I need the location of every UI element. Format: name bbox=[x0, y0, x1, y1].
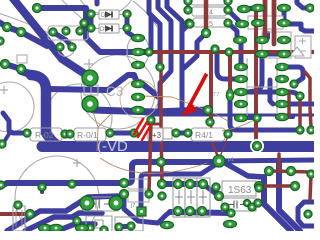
node: oval pad (258,23) bbox=[252, 19, 265, 26]
node: pad (258,203) bbox=[254, 199, 262, 207]
thin inner circle (tan) near C3 bbox=[120, 80, 158, 118]
node: pad (190,184) bbox=[186, 180, 195, 189]
node: pad (190,24) bbox=[186, 20, 194, 28]
node: pad (229,52) bbox=[225, 48, 233, 56]
node: oval pad (282,104) bbox=[276, 100, 289, 107]
svg-text:j7: j7 bbox=[130, 203, 135, 209]
node: oval pad (138,97) bbox=[132, 93, 145, 100]
capacitor outline arc top of chevrons bbox=[133, 1, 157, 27]
node: oval pad (258,8) bbox=[252, 4, 265, 11]
wire: red thin pad(228,134) to pad(219,161) bbox=[219, 136, 228, 159]
capacitor C7 bottom-left bbox=[82, 197, 120, 211]
svg-text:R4/1: R4/1 bbox=[195, 130, 213, 140]
node: oval pad (282,92) bbox=[276, 88, 289, 95]
node: pad (203,184) bbox=[199, 180, 208, 189]
transistor outline bottom center bbox=[86, 216, 143, 231]
node: pad (208,110) bbox=[204, 106, 213, 115]
node: oval pad (282,67) bbox=[276, 63, 289, 70]
wire: red horizontal y124 bbox=[148, 123, 161, 126]
svg-text:R-02: R-02 bbox=[35, 130, 54, 140]
wire: IC U1 oval(282,104) to right edge bbox=[286, 102, 314, 107]
node: pad (21,32) bbox=[17, 28, 26, 37]
diodes D5 D6 top-center bbox=[95, 10, 123, 33]
wire: film caps bottom bus y212 bbox=[170, 212, 231, 213]
resistor Rb body bbox=[192, 7, 226, 16]
wire: pad C diagonal stub bbox=[21, 32, 47, 46]
node: pad (70,134) bbox=[66, 130, 74, 138]
node: pad (178,211) bbox=[174, 207, 183, 216]
wire: chevron2 bbox=[158, 0, 171, 111]
node: pad (228,23) bbox=[224, 19, 232, 27]
resistor R1 body bbox=[30, 128, 62, 141]
electrolytic cap bottom-left corner bbox=[13, 206, 25, 231]
IC U1 body silk bbox=[247, 16, 311, 116]
wire: IC U1 oval(282,67) to pad(295,80) bbox=[286, 67, 303, 82]
wire: oval row1 link bbox=[244, 8, 256, 9]
node: pad (0,41) bbox=[0, 37, 4, 45]
node: oval pad (138,52) bbox=[132, 48, 145, 55]
node: pad (247,203) bbox=[244, 200, 251, 207]
node: large pad (219,161) bbox=[213, 155, 225, 167]
film capacitors C9 C10 C11 bbox=[173, 178, 210, 217]
node: large pad (90,104) bbox=[82, 96, 98, 112]
node: pad (5,64) bbox=[1, 60, 10, 69]
wire: red vertical x310 to pad(311,130) bbox=[310, 108, 311, 127]
node: pad (77,221) bbox=[73, 217, 81, 225]
node: oval pad (45,228) bbox=[39, 224, 52, 231]
capacitor outline circle mid-left bbox=[46, 84, 112, 150]
wire: chevron3 bbox=[167, 0, 182, 110]
wire: diode pads join left bbox=[89, 14, 94, 28]
resistor stack top-center bbox=[191, 0, 227, 27]
wire: red horizontal y186 bbox=[261, 184, 293, 188]
diode D3 bottom right with label bbox=[222, 181, 256, 196]
airwire horizontal mid bbox=[141, 96, 228, 121]
wire: staircase S2 bottom-left bbox=[25, 213, 102, 231]
node: pad (202,211) bbox=[198, 207, 207, 216]
wire: diode left bus: pad(87,25) down diag to H y52 bbox=[86, 24, 151, 52]
node: oval pad (138,38) bbox=[132, 34, 145, 41]
node: pad (189,23) bbox=[185, 19, 193, 27]
wire: red verticals top right pair b bbox=[272, 0, 277, 44]
wire: C7 right pad short bbox=[116, 203, 120, 206]
node: oval pad (244,9) bbox=[238, 5, 251, 12]
wire: top-left diagonal to big cap pad bbox=[11, 0, 88, 76]
wire: red vertical x211 H52 to pad(210,122) bbox=[209, 52, 213, 120]
capacitor C3 outline circle center bbox=[81, 55, 155, 129]
node: oval pad (284,23) bbox=[278, 19, 291, 26]
node: pad (27,133) bbox=[23, 129, 31, 137]
node: pad (2,144) bbox=[0, 140, 6, 148]
node: pad (188,10) bbox=[184, 6, 192, 14]
lead lines resistor row bbox=[27, 133, 228, 134]
resistor Ra body bbox=[191, 0, 225, 5]
connector ellipse around oval pads bbox=[127, 35, 149, 67]
node: pad (90,228) bbox=[86, 224, 94, 232]
node: pad (21,69) bbox=[17, 65, 26, 74]
svg-text:4: 4 bbox=[209, 10, 213, 17]
wire: R1-R2 shared pads bbox=[65, 132, 70, 136]
wire: red vertical x161 from y52 to pad(162,184) bbox=[161, 52, 162, 184]
node: pad (119,227) bbox=[115, 223, 123, 231]
resistor stack labels bbox=[209, 10, 213, 29]
wire: stub pad(110,133) to pad(134,133) bbox=[112, 131, 132, 136]
wire: pad(21,69) into corner bbox=[21, 71, 33, 75]
wire: route pad(222,97) down corner to H y130 bbox=[230, 98, 297, 130]
node: pad (228,134) bbox=[224, 130, 232, 138]
wire: oval(282,117) stub bbox=[286, 115, 293, 119]
node: pad (104,230) bbox=[100, 226, 108, 234]
wire: main thick band y146 bbox=[42, 141, 314, 152]
wire: left edge entry to resistor R1 bbox=[3, 113, 26, 133]
wire: pad pair left edge y64-69 bbox=[5, 64, 21, 69]
node: pad (178,184) bbox=[174, 180, 183, 189]
annotation: red arrow bbox=[181, 73, 208, 117]
node: pad (257,118) bbox=[253, 114, 261, 122]
resistor R3 body bbox=[148, 128, 163, 141]
wire: stub to pad(2,144) bbox=[4, 134, 9, 142]
node: pad (176,133) bbox=[172, 129, 180, 137]
wire: resistor stack right pad diag to H y24 bbox=[228, 10, 242, 24]
wire: IC mid vertical x262 bbox=[248, 56, 262, 92]
node: oval pad (138,84) bbox=[132, 80, 145, 87]
node: pad (311,174) bbox=[307, 170, 315, 178]
wire: IC U1 vertical x270 bbox=[270, 80, 273, 104]
node: large pad (116,203) bbox=[109, 196, 123, 210]
wire: feeder pad(189,23) to chevron3 bbox=[183, 24, 189, 30]
wire: red vertical x265 over silk box bbox=[263, 0, 268, 38]
node: pad (311,130) bbox=[307, 126, 315, 134]
svg-text:C3: C3 bbox=[106, 84, 123, 99]
airwire right mid bbox=[222, 118, 258, 131]
wire: bottom edge bits near transistor bbox=[119, 226, 131, 227]
node: pad (259,186) bbox=[255, 182, 264, 191]
svg-text:T7: T7 bbox=[213, 92, 219, 98]
node: pad (188,133) bbox=[184, 129, 192, 137]
node: pad (66,31) bbox=[62, 27, 70, 35]
node: oval pad (262,54) bbox=[256, 50, 269, 57]
silk box top-right area bbox=[248, 16, 283, 29]
node: pad (65,134) bbox=[61, 130, 69, 138]
wire: red horizontal y171 bbox=[271, 171, 311, 172]
node: pad (18,205) bbox=[14, 201, 22, 209]
node: oval pad (241,67) bbox=[235, 63, 248, 70]
node: large pad (90,78) bbox=[82, 70, 98, 86]
node: oval pad (262,40) bbox=[256, 36, 269, 43]
node: pad (269,171) bbox=[265, 167, 274, 176]
node: pad (72,47) bbox=[68, 43, 76, 51]
node: pad (127,28) bbox=[123, 24, 131, 32]
wire: red vertical x274 over silk box bbox=[272, 0, 277, 44]
wire: top bus diag to pad(219,196) bbox=[203, 184, 219, 196]
node: oval pad (56,228) bbox=[50, 224, 63, 231]
wire: oval(241,118) to pad(257,118) bbox=[245, 116, 254, 120]
node: pad (210,122) bbox=[206, 118, 214, 126]
node: pad (300,96) bbox=[296, 92, 304, 100]
node: pad (7,27) bbox=[3, 23, 12, 32]
node: pad (124,183) bbox=[120, 179, 129, 188]
node: pad (160,67) bbox=[156, 63, 164, 71]
capacitor outline big circle top-left bbox=[0, 13, 62, 40]
wire: red verticals top right pair a bbox=[263, 0, 268, 38]
component boxes right of C7 bbox=[128, 179, 149, 202]
node: large pad (87,203) bbox=[80, 196, 94, 210]
node: pad (131,226) bbox=[127, 222, 135, 230]
svg-text:D5: D5 bbox=[100, 27, 108, 33]
node: pad (190,211) bbox=[186, 207, 195, 216]
node: pad (216,187) bbox=[212, 183, 220, 191]
square pad bottom center bbox=[137, 207, 146, 216]
node: pad (134,133) bbox=[130, 129, 138, 137]
diode D5 body bbox=[95, 24, 123, 33]
small pad box right of R3 bbox=[163, 128, 172, 139]
node: oval pad (167,225) bbox=[161, 221, 174, 228]
svg-text:R-0/1: R-0/1 bbox=[77, 130, 98, 140]
resistor Rc body bbox=[193, 18, 227, 27]
node: pad (225,207) bbox=[221, 203, 229, 211]
wire: red right edge diagonal into vertical x310 bbox=[305, 72, 310, 101]
plus mark left circle bbox=[0, 86, 8, 94]
capacitor outline circle top-center bbox=[76, 0, 136, 14]
wire: big cap lower pad into bus bbox=[90, 104, 97, 110]
node: pad (42,187) bbox=[38, 183, 46, 191]
node: pad (151,120) bbox=[147, 116, 155, 124]
node: pad (37,8) bbox=[33, 4, 42, 13]
wire: silk-box oval down to IC pin bbox=[239, 43, 244, 64]
wire: relay internal trace bbox=[53, 32, 71, 46]
node: pad (127,14) bbox=[123, 10, 131, 18]
wire: right top horizontal y24 bbox=[242, 22, 301, 27]
node: pad (162,184) bbox=[158, 180, 167, 189]
node: oval pad (282,117) bbox=[276, 113, 289, 120]
capacitor C12 bottom right bbox=[222, 198, 256, 211]
svg-text:(-VD: (-VD bbox=[97, 138, 128, 155]
tall component right edge bbox=[295, 36, 311, 58]
airwire curve below band bbox=[100, 158, 207, 173]
node: pad (84,23) bbox=[80, 19, 88, 27]
wire: right top corner curve bbox=[297, 0, 314, 8]
node: pad (215,49) bbox=[211, 45, 219, 53]
node: oval pad (241,104) bbox=[235, 100, 248, 107]
node: pad (91,14) bbox=[87, 10, 95, 18]
wire: thin band right from pad(219,161) bbox=[219, 161, 264, 177]
node: pad (149,52) bbox=[145, 48, 153, 56]
wire: red vertical x300 pads 96-130 bbox=[298, 100, 302, 127]
node: pad (188,1) bbox=[184, 0, 192, 5]
wire: ovals row4 link bbox=[262, 52, 284, 57]
wire: bottom-right vertical V2 bbox=[279, 162, 300, 231]
wire: right edge jog y24-31 bbox=[301, 24, 314, 31]
small silk rect top left bbox=[17, 55, 27, 63]
node: pad (1,185) bbox=[0, 181, 5, 189]
node: pad (294,84) bbox=[290, 80, 298, 88]
plus mark big cap top bbox=[84, 59, 94, 69]
wire: chevron1 branch down bbox=[149, 16, 154, 49]
resistor R4 body bbox=[191, 128, 225, 141]
node: oval pad (240,40) bbox=[234, 36, 247, 43]
node: oval pad (138,65) bbox=[132, 61, 145, 68]
wire: bottom-right vertical V1 bbox=[264, 177, 291, 231]
triangle silk top right bbox=[290, 47, 304, 56]
node: pad (80,31) bbox=[76, 27, 84, 35]
wire: oval(282,8) down to H y24 bbox=[282, 10, 287, 21]
node: pad (53,32) bbox=[49, 28, 57, 36]
wire: chevron1 from top + branch to H y52 bbox=[149, 0, 160, 67]
wire: red vertical x256 over silk box bbox=[254, 9, 258, 50]
wire: red horizontal y52 bbox=[152, 50, 314, 54]
wire: IC U1 s-route left bbox=[217, 52, 237, 79]
svg-text:1S63: 1S63 bbox=[228, 185, 252, 196]
node: pad (110,133) bbox=[106, 129, 114, 137]
wire: red vertical x230 pad to voval bbox=[228, 54, 232, 90]
plus mark bottom-left circle bbox=[73, 159, 81, 167]
wire: staircase S1 bottom-left bbox=[7, 196, 120, 231]
relay/component outline top-left bbox=[48, 26, 88, 40]
node: oval pad (284,54) bbox=[278, 50, 291, 57]
capacitor outline circle left-middle bbox=[0, 82, 34, 132]
wire: feeder pad(206,33) to chevron3 bbox=[184, 34, 205, 68]
wire: red vertical x150 pad(151,119) to pad(149,194) bbox=[149, 121, 151, 192]
node: pad (206,33) bbox=[202, 29, 211, 38]
wire: second trace: left horizontal y183 diag to y162, to thin band right bbox=[0, 162, 216, 189]
resistor row center: bodies bbox=[27, 128, 228, 141]
node: pad (60,47) bbox=[56, 43, 64, 51]
node: pad (91,28) bbox=[87, 24, 95, 32]
node: oval pad (241,92) bbox=[235, 88, 248, 95]
wire: thin trace A diag and horizontal y160 to right edge bbox=[141, 160, 314, 209]
node: oval pad (242,24) bbox=[236, 20, 249, 27]
wire: red stub x279 band to H y171 bbox=[277, 154, 281, 169]
svg-text:D6: D6 bbox=[101, 13, 109, 19]
wire: staircase S3 bottom-left bbox=[57, 224, 95, 231]
wire: top horizontal y8 + vertical x86 down to diode bus bbox=[37, 8, 86, 25]
wire: bottom left pad stub bbox=[40, 187, 44, 192]
polarity box on big cap bbox=[84, 85, 98, 95]
node: oval pad (82,228) bbox=[76, 224, 89, 231]
wire: left edge diagonal to pad B bbox=[0, 21, 21, 32]
node: pad (308,214) bbox=[304, 210, 312, 218]
wire: film caps top bus y184 bbox=[166, 181, 203, 187]
wire: oval(262,40) vertical link bbox=[266, 33, 270, 38]
node: pad (228,1) bbox=[224, 0, 232, 5]
wire: IC U1 row y92 to pad(299,96) bbox=[246, 92, 299, 96]
node: vertical oval pad (230,95) bbox=[226, 89, 233, 101]
wire: corner and main vertical into band bbox=[31, 75, 58, 146]
node: oval pad (230,224) bbox=[224, 220, 237, 227]
wire: red vertical x311 y174-199 bbox=[310, 176, 311, 199]
transistor circle outline bbox=[58, 40, 75, 57]
node: pad (310,8) bbox=[306, 4, 314, 12]
node: pad (295,186) bbox=[291, 182, 300, 191]
node: oval pad (284,40) bbox=[278, 36, 291, 43]
wire: diode pads join right bbox=[125, 14, 130, 28]
svg-text:5: 5 bbox=[209, 21, 213, 28]
node: oval pad (138,110) bbox=[132, 106, 145, 113]
wire: pad(124,194) down diag to bottom run bbox=[124, 194, 158, 223]
node: pad (149,194) bbox=[145, 190, 153, 198]
node: pad (219,196) bbox=[215, 192, 224, 201]
diode D6 body bbox=[95, 10, 123, 19]
resistor row labels bbox=[35, 130, 213, 140]
wire: diode right pad to top oval bbox=[127, 28, 133, 36]
airwire junction near R2 bbox=[91, 106, 111, 151]
node: pad (124,194) bbox=[120, 190, 129, 199]
node: oval pad (241,118) bbox=[235, 114, 248, 121]
wire: bottom bus y111 to pad (208,110) bbox=[93, 110, 206, 112]
wire: red bottom-left horizontal y214 bbox=[0, 212, 28, 216]
wire: top edge stub x97 bbox=[95, 0, 100, 4]
capacitor outline circle bottom-left bbox=[15, 156, 99, 240]
node: pad (300,130) bbox=[296, 126, 304, 134]
wire: diag to film caps bottom bus bbox=[158, 212, 170, 223]
wire: branch horizontal y89 through cap then diag up to oval column bbox=[47, 75, 136, 90]
svg-text:+3: +3 bbox=[152, 131, 162, 140]
node: oval pad (282,79) bbox=[276, 75, 289, 82]
node: oval pad (241,79) bbox=[235, 75, 248, 82]
wire: pad(228,23) diag down bbox=[228, 23, 237, 36]
node: oval pad (284,8) bbox=[278, 4, 291, 11]
node: clearance around band pad bbox=[250, 139, 264, 153]
annotation: DRC hatch marks bbox=[134, 119, 151, 140]
node: pad (228,10) bbox=[224, 6, 232, 14]
wire: thin line y115 bbox=[152, 114, 314, 117]
node: pad (161,162) bbox=[157, 158, 166, 167]
node: pad (231,213) bbox=[227, 209, 235, 217]
wire: red thin pad(210,122) to pad(219,161) bbox=[211, 124, 219, 159]
wire: feeder oval(138,84) diag to chevron2 bbox=[140, 82, 160, 98]
node: pad (259,188) bbox=[255, 184, 263, 192]
node: pad (30,214) bbox=[26, 210, 35, 219]
wire: red vertical x289 bbox=[287, 91, 291, 117]
wire: red vertical x256 from top to band pad bbox=[254, 9, 258, 144]
wire: red vertical x206 over resistor stack bbox=[204, 0, 209, 31]
node: pad (162,196) bbox=[158, 192, 166, 200]
node: pad (257,146) bbox=[253, 142, 262, 151]
node: pad (291,171) bbox=[287, 167, 296, 176]
svg-text:p1: p1 bbox=[228, 157, 234, 163]
wire: right edge octagon wrap bbox=[298, 202, 314, 226]
resistor R2 body bbox=[74, 128, 106, 141]
node: pad (72,184) bbox=[68, 180, 76, 188]
node: pad (252,207) bbox=[248, 203, 256, 211]
wire: stub pad(176,133) to pad(188,133) bbox=[177, 131, 187, 136]
